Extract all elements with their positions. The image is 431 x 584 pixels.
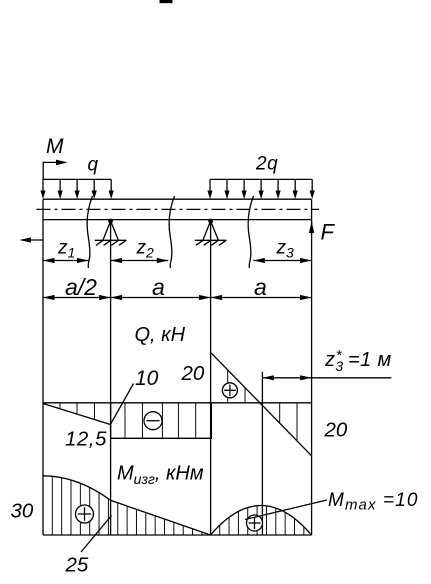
support 1 [95,219,127,246]
Q diagram baseline [43,402,312,404]
M right hatch [220,506,304,535]
Q middle hatch [125,403,196,439]
M plus circle left [76,505,94,523]
svg-text:20: 20 [324,419,348,442]
load q arrows [40,179,113,199]
M diagram baseline [43,534,312,536]
M left hatch [52,476,202,535]
Q plus sign circle [222,383,237,398]
svg-text:q: q [88,154,99,175]
extension line x=210.6 [210,221,212,535]
M plus circle right [247,515,263,531]
Mmax position line [261,372,263,535]
section wavy line 3 [248,196,253,268]
extension line x=311.6 [311,199,313,535]
svg-text:a: a [254,274,267,300]
top crop mark [160,0,173,3]
leader for 25 [81,516,112,553]
Q left slope [43,404,110,425]
load 2q arrows [207,179,314,199]
load 2q line [210,178,312,180]
svg-text:a/2: a/2 [65,274,97,300]
dimension a (middle) [111,295,211,300]
svg-text:z3: z3 [276,238,295,261]
Q middle rectangle [111,403,212,439]
svg-text:2q: 2q [255,154,278,175]
M left curve [43,476,211,535]
svg-text:z1: z1 [57,238,75,261]
beam top line [43,198,312,200]
Q right diagonal [211,352,312,455]
dimension z1 [43,258,89,263]
load q line [43,178,111,180]
leader for 10 [111,384,134,425]
force F arrow [309,222,314,234]
beam centerline [37,208,320,210]
beam bottom line [43,219,312,221]
M right parabola [211,506,312,536]
moment M arrow [43,160,67,180]
section wavy line 2 [169,196,174,268]
Q right hatch upper [228,370,245,403]
svg-text:Mизг, кНм: Mизг, кНм [117,463,204,488]
svg-text:12,5: 12,5 [65,428,107,451]
dimension z3 [253,258,311,263]
svg-text:10: 10 [135,367,159,390]
svg-text:F: F [321,220,336,245]
support 2 [195,219,227,246]
extension line x=43 [42,199,44,535]
svg-text:z2: z2 [136,238,155,261]
dimension z2 [111,258,169,263]
svg-text:25: 25 [65,553,89,576]
dimension a (right) [211,295,312,300]
svg-text:z3* =1 м: z3* =1 м [324,347,392,374]
extension line x=110.6 [110,221,112,535]
section wavy line 1 [87,196,92,268]
svg-text:Mmax =10: Mmax =10 [328,490,419,514]
Q minus sign circle [144,412,162,430]
dimension z3* [262,375,391,380]
svg-text:a: a [152,274,165,300]
svg-text:Q, кН: Q, кН [135,324,186,346]
svg-text:30: 30 [11,500,34,523]
left reference arrow [20,237,44,242]
svg-text:20: 20 [181,362,205,385]
Q left hatch [60,403,95,419]
svg-text:M: M [46,135,64,158]
dimension a/2 [43,295,111,300]
leader for Mmax [245,500,327,520]
Q right hatch lower [280,403,297,441]
